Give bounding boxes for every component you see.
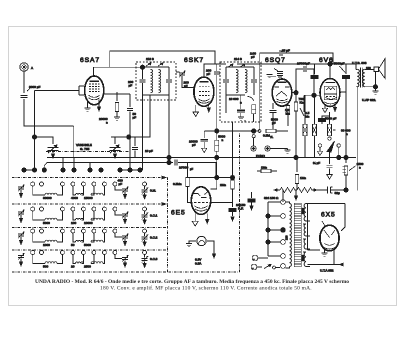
trimmer mid <box>115 211 122 215</box>
svg-text:Kn: Kn <box>300 101 304 105</box>
trimmer mid <box>115 255 122 259</box>
tube 6X5 <box>320 225 339 251</box>
drum row O.C.3 <box>18 251 158 269</box>
svg-text:5000 μF: 5000 μF <box>325 117 337 121</box>
svg-text:113 S: 113 S <box>146 57 154 61</box>
svg-text:0.C.1: 0.C.1 <box>150 214 158 218</box>
electrolytic bypass <box>248 192 256 210</box>
trimmer right <box>144 211 146 214</box>
svg-text:30000: 30000 <box>43 196 52 200</box>
tone right circle to bus <box>337 147 341 159</box>
svg-text:10 000: 10 000 <box>229 97 239 101</box>
svg-text:pF: pF <box>133 116 137 120</box>
secondary winding 3 <box>304 239 306 249</box>
coil 4000 <box>73 186 84 195</box>
IF2 coil secondary <box>245 70 247 93</box>
6X5 wiring <box>322 221 345 231</box>
capacitor 3000pF <box>21 88 32 98</box>
IF2 lower parts <box>237 95 245 120</box>
secondary bus <box>47 162 173 164</box>
capacitor 10pF <box>130 137 138 158</box>
6V6 internals <box>324 83 336 104</box>
fono jacks <box>251 135 270 152</box>
coil 10000 <box>91 211 104 220</box>
wire 6E5 target anode <box>211 158 217 190</box>
coil 5000 <box>91 233 104 242</box>
6SK7 internals <box>199 82 210 104</box>
svg-text:UNDA RADIO - Mod. R 64/6 -: UNDA RADIO - Mod. R 64/6 - Onde medie e … <box>35 279 349 285</box>
wire IF1 right down <box>168 95 170 163</box>
label 30000 <box>333 129 336 131</box>
svg-text:5000: 5000 <box>84 243 91 247</box>
svg-text:6X5: 6X5 <box>321 212 336 219</box>
secondary winding 4 <box>304 252 306 266</box>
svg-text:n: n <box>106 121 108 125</box>
contacts <box>31 229 35 233</box>
electrolytic 32uF <box>317 187 346 194</box>
tube 6SA7 <box>85 76 104 105</box>
wire left vertical to drum <box>34 90 36 170</box>
resistor in IF2 <box>248 96 256 122</box>
ground 6SA7 cathode <box>85 101 91 111</box>
trimmer left <box>18 185 25 192</box>
power transformer <box>266 200 310 269</box>
svg-text:5000: 5000 <box>43 221 50 225</box>
wire antenna to drum <box>24 99 74 170</box>
fono wiring <box>254 138 288 150</box>
B+ top rail <box>237 63 356 65</box>
contacts <box>31 207 35 211</box>
main bus <box>47 157 356 159</box>
wire 6SA7 g to caps <box>103 93 130 95</box>
IF1 coil primary <box>151 70 153 93</box>
tap bus <box>267 202 269 256</box>
ganging dash-dot <box>46 151 130 153</box>
svg-text:3000 pF: 3000 pF <box>29 85 40 89</box>
variable cap right <box>110 137 121 158</box>
wire IF1 left down to drum <box>142 95 144 170</box>
coil 100 <box>73 211 84 220</box>
coil 20 <box>73 255 84 264</box>
resistor 500 <box>343 78 349 192</box>
resistor 2Mn <box>231 180 234 207</box>
tone control <box>318 137 340 152</box>
core laminations <box>294 203 301 267</box>
ground arrow 6SK7 <box>193 105 199 117</box>
6SA7 internals <box>89 81 100 100</box>
arrow AVC 6SA7 <box>97 100 100 112</box>
capacitor 200pF grid 6SK7 trimmer <box>176 71 194 88</box>
svg-text:100: 100 <box>71 221 76 225</box>
tube 6SK7 <box>194 77 214 106</box>
svg-text:pF: pF <box>184 84 188 88</box>
resistor 1Mn vertical <box>295 158 298 191</box>
node <box>167 160 171 164</box>
electrolytic left of 6V6 <box>311 64 319 79</box>
svg-text:pF: pF <box>272 121 276 125</box>
IF1 right capacitor <box>166 67 172 95</box>
svg-text:114 S: 114 S <box>234 57 242 61</box>
grounds 6E5 <box>192 214 198 227</box>
IF2 right capacitor <box>251 67 257 95</box>
resistor 5000n <box>215 140 219 151</box>
resistor 20000 under 6SA7 <box>114 92 120 120</box>
output transformer UTS308 <box>356 64 365 88</box>
trimmer left <box>18 253 25 260</box>
wire 6E5 cathode <box>211 201 233 203</box>
svg-text:0.M.: 0.M. <box>150 189 156 193</box>
tube 6V6 <box>320 79 340 107</box>
wire 6SK7 plate <box>204 64 226 77</box>
IF1 left capacitor 200pF <box>140 67 146 95</box>
svg-text:Mn: Mn <box>305 115 310 119</box>
svg-text:10 pF: 10 pF <box>145 149 153 153</box>
svg-text:VL: VL <box>270 135 274 139</box>
svg-text:50: 50 <box>71 243 75 247</box>
svg-text:n: n <box>222 138 224 142</box>
capacitor 50pF <box>127 94 133 170</box>
coil 2500 <box>91 255 104 264</box>
dash-dot frame <box>12 133 240 272</box>
svg-text:500: 500 <box>43 265 48 269</box>
arrow row pointer 1 <box>162 176 168 180</box>
switch <box>264 265 271 269</box>
contacts <box>31 182 35 186</box>
svg-text:32μ: 32μ <box>335 191 340 195</box>
svg-text:2Mn: 2Mn <box>220 183 226 187</box>
capacitor 200pF plate <box>214 64 220 158</box>
resistor 1/2 M <box>286 103 289 126</box>
svg-text:5000: 5000 <box>301 208 305 214</box>
svg-text:pF: pF <box>129 84 133 88</box>
secondary winding 2 <box>304 224 306 236</box>
field divider resistor 324+130 <box>274 188 317 193</box>
coil 30000 <box>33 186 63 195</box>
svg-text:0.5A: 0.5A <box>195 262 202 266</box>
svg-text:10000: 10000 <box>84 221 93 225</box>
svg-text:15000: 15000 <box>84 196 93 200</box>
antenna A <box>20 63 28 71</box>
capacitor 1/4 uF <box>327 152 333 179</box>
trimmer right <box>144 255 146 258</box>
svg-text:¼ μF: ¼ μF <box>313 161 320 165</box>
6E5 internals <box>194 191 209 211</box>
winding connections <box>285 202 289 268</box>
wire down from resistor tap <box>283 190 296 202</box>
capacitor 200pF 6SQ7 grid <box>267 69 284 78</box>
svg-text:180 V. Conv. e amplif. MF plac: 180 V. Conv. e amplif. MF placca 110 V, … <box>100 285 312 292</box>
capacitor 10000pF bias <box>201 131 217 153</box>
arrow 6SK7 cathode <box>207 105 210 113</box>
svg-text:0.5Mn: 0.5Mn <box>173 182 182 186</box>
IF transformer 114S box <box>220 62 261 122</box>
resistor 1Mn horizontal <box>257 169 277 172</box>
svg-text:4000: 4000 <box>71 196 78 200</box>
secondary HT winding <box>304 204 306 222</box>
svg-text:2500: 2500 <box>84 265 91 269</box>
contacts <box>31 251 35 255</box>
capacitor 10000pF series <box>175 160 216 178</box>
electrolytic right of 6V6 <box>342 64 350 79</box>
svg-text:20: 20 <box>71 265 75 269</box>
drum wires <box>24 158 140 171</box>
svg-text:0.C.2: 0.C.2 <box>150 236 158 240</box>
wire 6V6 grid <box>304 95 321 112</box>
drum row O.C.2 <box>18 229 158 247</box>
trimmer right <box>144 233 146 236</box>
IF2 trimmers <box>228 64 245 67</box>
tube 6E5 <box>191 187 210 215</box>
AC plug <box>251 255 280 270</box>
svg-text:6SQ7: 6SQ7 <box>265 57 286 64</box>
wire 6V6 screen <box>341 91 347 93</box>
IF2 coil primary <box>236 70 238 93</box>
IF transformer 113S box <box>136 62 176 100</box>
IF2 left capacitor <box>223 67 229 95</box>
wire osc coil to tuning <box>111 95 150 137</box>
svg-text:1Mn: 1Mn <box>261 166 267 170</box>
svg-text:0.C.3: 0.C.3 <box>150 257 158 261</box>
svg-text:10'000: 10'000 <box>179 166 188 170</box>
trimmer left <box>18 232 25 239</box>
coil 15000 <box>91 186 104 195</box>
svg-text:10'000μF: 10'000μF <box>297 62 310 66</box>
resistor R bias 2 <box>312 95 316 157</box>
electrolytic 10/150 <box>229 208 237 221</box>
svg-text:6SA7: 6SA7 <box>80 57 100 64</box>
svg-text:pF: pF <box>207 72 211 76</box>
drum contacts row <box>22 168 142 172</box>
svg-text:R.F.: R.F. <box>238 207 244 211</box>
svg-text:U.AP 622.: U.AP 622. <box>362 98 376 102</box>
capacitor .25uF top <box>260 50 333 130</box>
tone left circle ground <box>317 147 322 155</box>
tube 6SQ7 <box>272 79 292 106</box>
wire B+ loop over IF1 <box>110 51 215 67</box>
svg-text:pF: pF <box>192 143 196 147</box>
primary winding <box>290 204 292 267</box>
resistor R cathode <box>328 112 332 136</box>
arrow row pointer 2 <box>162 202 168 206</box>
6X5 internals <box>324 230 336 249</box>
wire 6V6 plate <box>329 64 331 78</box>
IF1 coil secondary <box>159 70 161 93</box>
volume pot 0.5M <box>251 129 288 133</box>
6SQ7 internals <box>275 82 290 103</box>
capacitor coupling <box>292 66 314 95</box>
drum row O.M. <box>18 179 156 201</box>
variable cap left <box>35 137 59 158</box>
trimmer right <box>144 186 146 189</box>
svg-text:U.T.A 952: U.T.A 952 <box>320 269 334 273</box>
resistor 0.5Mn <box>186 163 192 203</box>
svg-text:G. 765: G. 765 <box>80 147 90 151</box>
6X5 rectifier box <box>308 204 345 250</box>
coil 1000 <box>33 233 63 242</box>
svg-text:Mn: Mn <box>286 112 291 116</box>
drum row O.C.1 <box>18 207 158 225</box>
IF1 wires <box>143 67 170 95</box>
wire IF2 left down <box>225 95 227 113</box>
trimmer mid <box>115 233 122 237</box>
wire to speaker <box>365 69 376 86</box>
svg-text:n: n <box>359 166 361 170</box>
wire 6E5 grid <box>188 177 233 179</box>
wire antenna down <box>23 71 25 93</box>
speaker U.AP 622 <box>374 59 385 79</box>
resistor 760K <box>294 93 297 158</box>
coil 5000 <box>33 211 63 220</box>
trimmer mid <box>115 186 122 190</box>
svg-text:1000: 1000 <box>43 243 50 247</box>
IF2 wires <box>226 67 254 95</box>
svg-text:5000: 5000 <box>301 255 305 261</box>
6V6 cathode down arrows <box>322 105 327 113</box>
svg-text:6SK7: 6SK7 <box>184 57 204 64</box>
coil 500 <box>33 255 63 264</box>
svg-text:pF: pF <box>251 55 255 59</box>
svg-text:6E5: 6E5 <box>171 210 186 217</box>
IF1 trimmers <box>146 63 163 66</box>
svg-text:pF: pF <box>119 182 123 186</box>
svg-text:1Mn: 1Mn <box>300 176 306 180</box>
capacitor 5000uF cathode <box>318 116 329 124</box>
svg-text:5000μF: 5000μF <box>334 62 345 66</box>
wire volume AVC line <box>217 130 260 132</box>
svg-text:130: 130 <box>285 235 289 240</box>
wire AVC to 6E5 <box>233 120 246 179</box>
svg-text:324 130 Ω: 324 130 Ω <box>264 196 279 200</box>
wire 6SA7 plate to IF1 <box>94 67 143 76</box>
svg-text:U.T.S. 308: U.T.S. 308 <box>352 61 367 65</box>
capacitor 5000pF <box>270 103 277 131</box>
pilot lamp <box>186 236 216 258</box>
coil 50 <box>73 233 84 242</box>
svg-text:pF: pF <box>190 167 193 171</box>
tap contacts <box>281 200 286 205</box>
wire grid line 6SA7 <box>35 86 85 95</box>
transformer to 6X5 wires <box>308 250 334 265</box>
trimmer left <box>18 210 25 217</box>
page border frame <box>9 27 397 306</box>
ground speaker <box>372 87 378 94</box>
svg-text:.25 μF: .25 μF <box>281 49 290 53</box>
ground fono <box>285 150 291 153</box>
resistor R bias 1 <box>303 95 307 157</box>
B+ line down right <box>356 87 358 191</box>
node junction <box>32 135 36 139</box>
